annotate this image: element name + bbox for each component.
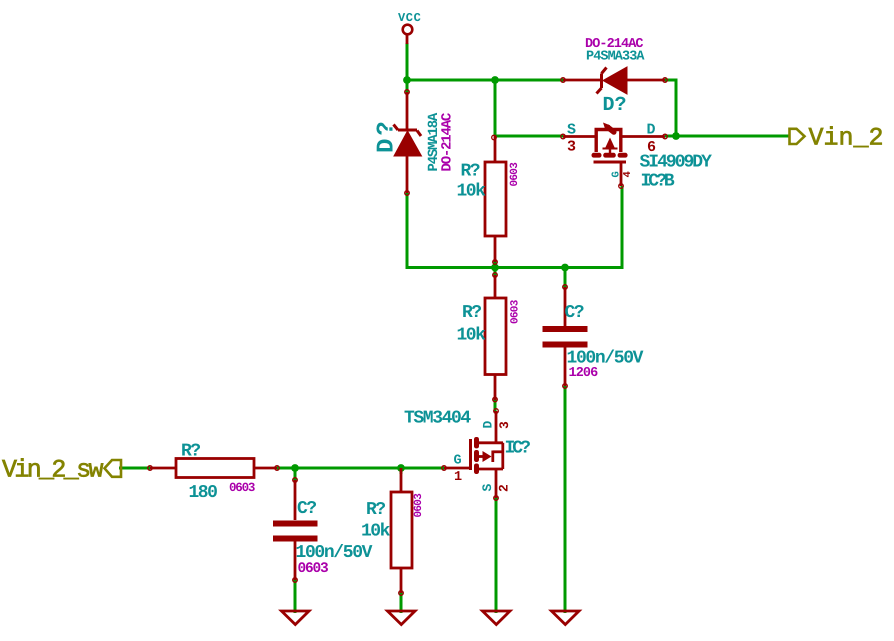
svg-text:R?: R?: [181, 442, 200, 462]
svg-text:C?: C?: [297, 499, 316, 519]
svg-text:0603: 0603: [229, 481, 255, 495]
svg-text:SI4909DY: SI4909DY: [640, 153, 713, 173]
svg-text:0603: 0603: [509, 299, 521, 324]
svg-text:D: D: [481, 421, 496, 429]
svg-text:R?: R?: [461, 162, 480, 182]
svg-text:D?: D?: [603, 94, 627, 117]
svg-text:0603: 0603: [413, 493, 425, 518]
svg-text:0603: 0603: [298, 561, 329, 577]
svg-text:2: 2: [497, 484, 512, 492]
svg-text:DO-214AC: DO-214AC: [440, 112, 456, 171]
svg-text:180: 180: [189, 483, 218, 503]
svg-text:Vin_2: Vin_2: [809, 124, 884, 153]
svg-text:1: 1: [454, 470, 462, 485]
svg-text:1206: 1206: [569, 366, 599, 381]
svg-text:0603: 0603: [509, 162, 521, 187]
svg-text:P4SMA33A: P4SMA33A: [586, 50, 645, 65]
svg-text:10k: 10k: [457, 326, 487, 346]
svg-text:D: D: [647, 122, 656, 139]
svg-text:3: 3: [567, 139, 576, 156]
svg-text:VCC: VCC: [398, 11, 421, 25]
svg-text:R?: R?: [462, 303, 481, 323]
svg-text:G: G: [454, 454, 462, 469]
svg-text:S: S: [480, 484, 495, 492]
svg-text:S: S: [567, 122, 576, 139]
svg-text:R?: R?: [366, 500, 385, 520]
svg-text:3: 3: [497, 421, 512, 429]
svg-text:100n/50V: 100n/50V: [296, 543, 373, 563]
svg-text:Vin_2_sw: Vin_2_sw: [2, 456, 103, 485]
svg-text:10k: 10k: [361, 522, 391, 542]
svg-text:IC?B: IC?B: [641, 172, 675, 192]
svg-text:D?: D?: [374, 118, 401, 153]
svg-text:IC?: IC?: [505, 439, 531, 459]
svg-text:G: G: [610, 171, 622, 177]
svg-text:TSM3404: TSM3404: [404, 409, 471, 429]
svg-text:10k: 10k: [457, 182, 487, 202]
svg-text:4: 4: [622, 171, 634, 177]
svg-text:C?: C?: [565, 303, 584, 323]
